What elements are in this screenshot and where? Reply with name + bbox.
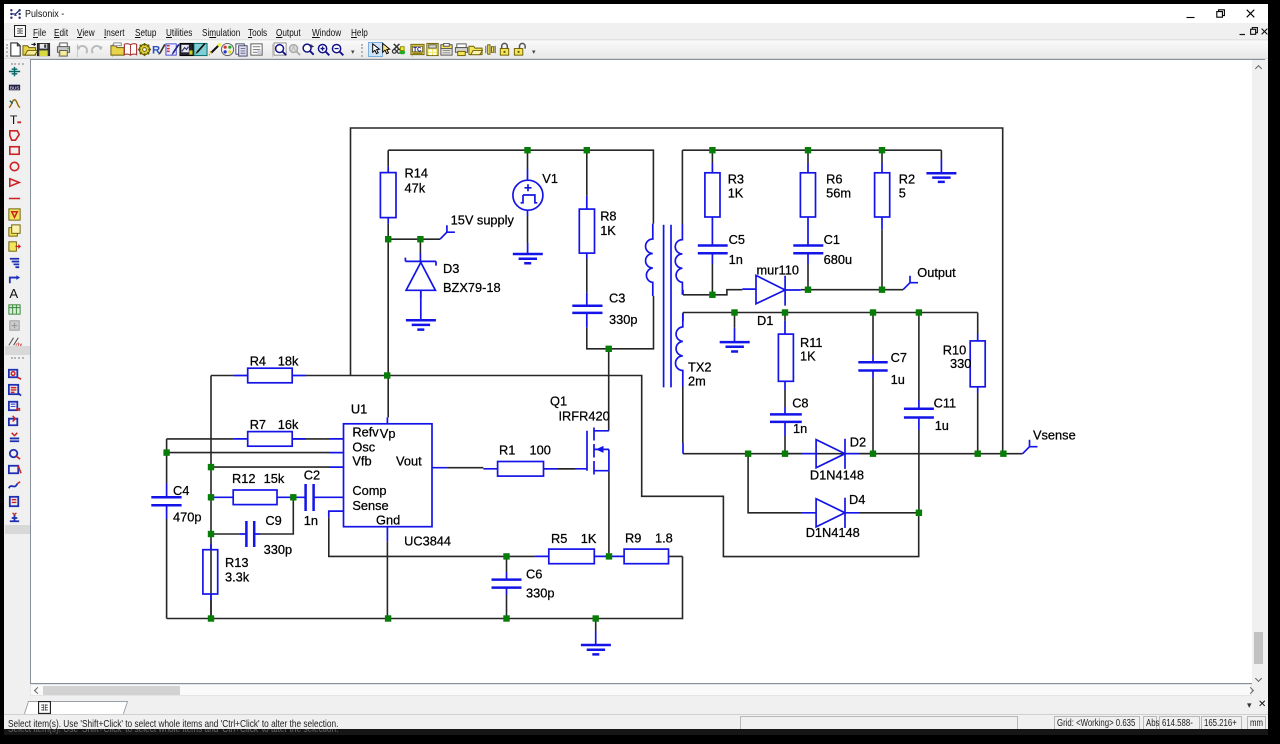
svg-text:330p: 330p — [264, 542, 292, 557]
svg-text:1K: 1K — [581, 531, 597, 546]
svg-text:UC3844: UC3844 — [404, 533, 451, 548]
svg-text:R14: R14 — [405, 165, 428, 180]
svg-text:C4: C4 — [173, 483, 189, 498]
svg-text:18k: 18k — [278, 353, 299, 368]
svg-text:U1: U1 — [351, 401, 367, 416]
svg-text:Vsense: Vsense — [1033, 428, 1076, 443]
svg-text:Refv: Refv — [352, 425, 379, 440]
svg-text:C8: C8 — [792, 396, 808, 411]
svg-text:Comp: Comp — [352, 483, 386, 498]
svg-text:Vp: Vp — [380, 426, 396, 441]
svg-text:1K: 1K — [800, 348, 816, 363]
svg-text:3.3k: 3.3k — [225, 570, 250, 585]
svg-text:1K: 1K — [728, 186, 744, 201]
svg-text:D3: D3 — [443, 261, 459, 276]
svg-text:C3: C3 — [609, 290, 625, 305]
svg-text:R2: R2 — [899, 171, 915, 186]
svg-text:C2: C2 — [304, 468, 320, 483]
svg-text:C6: C6 — [526, 566, 542, 581]
svg-text:D1N4148: D1N4148 — [806, 525, 860, 540]
svg-text:1n: 1n — [793, 421, 807, 436]
svg-text:Gnd: Gnd — [376, 513, 400, 528]
svg-text:R3: R3 — [728, 171, 744, 186]
svg-text:16k: 16k — [278, 417, 299, 432]
svg-text:330: 330 — [950, 356, 971, 371]
svg-text:C9: C9 — [265, 513, 281, 528]
svg-text:1n: 1n — [304, 513, 318, 528]
svg-text:R5: R5 — [551, 531, 567, 546]
svg-text:D2: D2 — [850, 435, 866, 450]
svg-text:2m: 2m — [688, 373, 706, 388]
svg-text:mur110: mur110 — [757, 262, 799, 277]
svg-text:680u: 680u — [824, 252, 852, 267]
svg-text:100: 100 — [530, 442, 551, 457]
svg-text:330p: 330p — [609, 312, 637, 327]
svg-text:R1: R1 — [499, 442, 515, 457]
svg-text:56m: 56m — [826, 186, 851, 201]
svg-text:1n: 1n — [729, 252, 743, 267]
svg-text:C1: C1 — [824, 232, 840, 247]
svg-text:R7: R7 — [250, 417, 266, 432]
svg-text:Osc: Osc — [352, 439, 375, 454]
svg-text:Vfb: Vfb — [352, 453, 371, 468]
svg-text:V1: V1 — [542, 171, 558, 186]
svg-text:1u: 1u — [891, 372, 905, 387]
svg-text:D1: D1 — [757, 313, 773, 328]
svg-text:15V supply: 15V supply — [451, 213, 515, 228]
svg-text:1u: 1u — [935, 418, 949, 433]
svg-text:C7: C7 — [891, 350, 907, 365]
svg-text:R4: R4 — [250, 353, 266, 368]
svg-text:D4: D4 — [849, 492, 865, 507]
svg-text:Vout: Vout — [396, 453, 422, 468]
svg-text:330p: 330p — [526, 585, 554, 600]
svg-text:470p: 470p — [173, 509, 201, 524]
svg-text:Output: Output — [917, 265, 956, 280]
svg-text:47k: 47k — [405, 180, 426, 195]
svg-text:15k: 15k — [264, 471, 285, 486]
svg-text:C5: C5 — [729, 232, 745, 247]
svg-text:5: 5 — [899, 186, 906, 201]
svg-text:1.8: 1.8 — [655, 530, 673, 545]
svg-text:Q1: Q1 — [550, 394, 567, 409]
svg-text:BZX79-18: BZX79-18 — [443, 280, 501, 295]
svg-text:R9: R9 — [625, 530, 641, 545]
svg-text:R12: R12 — [232, 471, 255, 486]
svg-text:1K: 1K — [600, 223, 616, 238]
svg-text:Sense: Sense — [352, 498, 388, 513]
svg-text:D1N4148: D1N4148 — [810, 467, 864, 482]
svg-text:R13: R13 — [225, 555, 248, 570]
svg-text:IRFR420: IRFR420 — [559, 409, 610, 424]
svg-text:R8: R8 — [600, 209, 616, 224]
svg-text:TX2: TX2 — [688, 359, 711, 374]
svg-text:R6: R6 — [826, 171, 842, 186]
svg-text:C11: C11 — [934, 396, 957, 411]
